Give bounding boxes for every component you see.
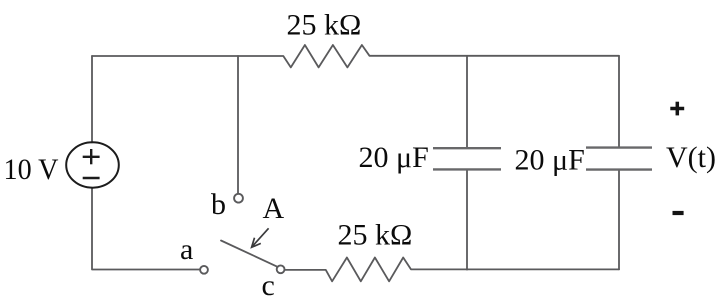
svg-text:20 μF: 20 μF — [515, 144, 585, 177]
svg-text:c: c — [262, 269, 275, 302]
svg-text:10 V: 10 V — [4, 153, 59, 186]
svg-text:25 kΩ: 25 kΩ — [287, 9, 362, 42]
svg-text:A: A — [263, 192, 285, 225]
svg-text:25 kΩ: 25 kΩ — [338, 219, 413, 252]
svg-text:a: a — [180, 233, 193, 266]
svg-text:V(t): V(t) — [666, 141, 716, 174]
svg-text:20 μF: 20 μF — [359, 141, 429, 174]
svg-text:b: b — [211, 188, 226, 221]
